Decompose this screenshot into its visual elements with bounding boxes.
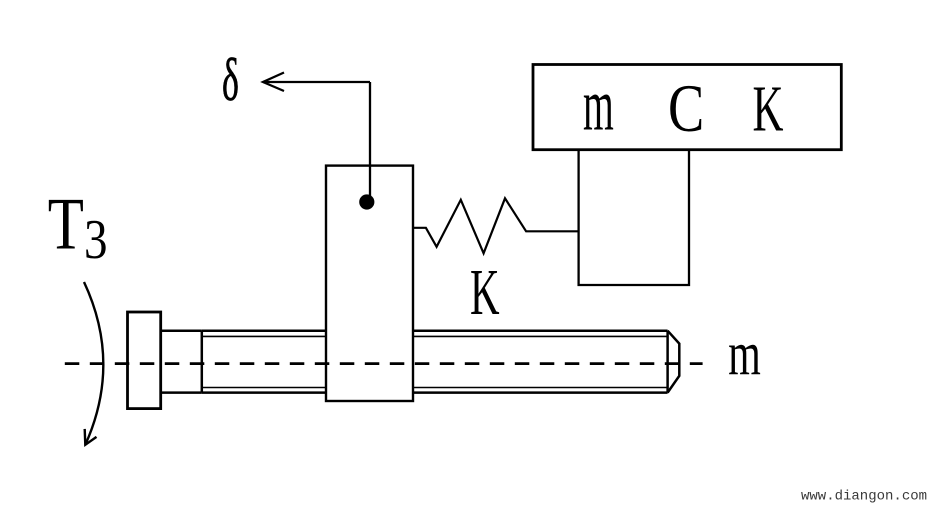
torque arrowhead xyxy=(85,429,97,445)
bolt head xyxy=(128,312,161,409)
svg-text:K: K xyxy=(470,255,500,328)
thread outer lines xyxy=(202,331,668,393)
shaft tip chamfer xyxy=(668,331,680,393)
svg-text:www.diangon.com: www.diangon.com xyxy=(801,489,927,505)
centerline dashed xyxy=(65,362,703,365)
mass box m C K xyxy=(533,65,841,150)
svg-text:δ: δ xyxy=(222,47,239,114)
arrow for delta displacement xyxy=(263,73,370,92)
nut block xyxy=(326,166,413,401)
shaft tip end line xyxy=(666,331,669,393)
svg-text:T: T xyxy=(48,183,84,265)
pivot dot xyxy=(359,194,374,209)
curved torque arrow xyxy=(84,282,103,445)
thread root lines xyxy=(202,336,668,387)
spring K xyxy=(413,198,579,253)
thread start line xyxy=(201,331,204,393)
svg-text:m: m xyxy=(728,320,761,388)
svg-text:m: m xyxy=(583,64,614,146)
svg-text:K: K xyxy=(753,72,784,146)
wire inside block to pivot xyxy=(369,165,371,202)
svg-text:C: C xyxy=(668,71,704,146)
shank outer lines xyxy=(161,331,202,393)
pedestal box under mass xyxy=(579,151,689,286)
wire from delta arrow down to nut pivot xyxy=(369,82,371,202)
svg-text:3: 3 xyxy=(84,209,108,271)
